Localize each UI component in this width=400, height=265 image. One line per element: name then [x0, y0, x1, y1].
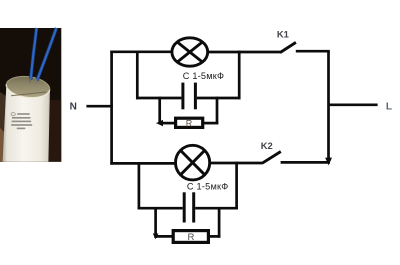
- svg-text:R: R: [188, 232, 195, 243]
- junction arrow at right bus bottom: [325, 158, 332, 166]
- junction arrow at bottom resistor left: [153, 234, 159, 240]
- svg-text:N: N: [70, 102, 77, 113]
- photo of capacitor: [0, 28, 61, 162]
- wire bottom resistor lead left: [155, 235, 175, 238]
- terminals on top: [29, 79, 31, 83]
- wire K2 to right bus: [281, 161, 330, 164]
- reddish lower right: [47, 100, 61, 162]
- blue wire left: [31, 28, 37, 80]
- wire left bus: [110, 51, 113, 165]
- wire bottom outer-left vertical: [138, 162, 141, 209]
- wire bottom branch left: [110, 162, 176, 165]
- wire bottom resistor lead right: [208, 235, 220, 238]
- capacitor C2 plates: [183, 192, 186, 222]
- svg-text:K2: K2: [261, 140, 273, 151]
- wire bottom cap lead right: [195, 207, 238, 210]
- lamp HL1: [172, 38, 208, 66]
- resistor R2 box: [173, 231, 208, 243]
- lamp HL2: [176, 145, 210, 180]
- wire bottom inner-left vertical: [154, 207, 157, 238]
- wire top inner-right vertical: [216, 97, 219, 125]
- switch K1 blade: [280, 42, 296, 52]
- capacitor cylinder body: [3, 88, 50, 162]
- wire top outer-right vertical: [238, 51, 241, 100]
- wire top cap lead left: [136, 97, 181, 100]
- switch K2 blade: [262, 152, 281, 164]
- resistor R1 box: [176, 118, 203, 127]
- node N wire: [86, 105, 113, 108]
- wire top outer-left vertical: [136, 51, 139, 100]
- svg-text:R: R: [186, 118, 193, 128]
- wire right bus: [327, 51, 330, 158]
- wire bottom cap lead left: [138, 207, 183, 210]
- photo background (dark table): [0, 28, 61, 162]
- wire top branch left: [110, 50, 172, 53]
- capacitor top face: [5, 74, 51, 100]
- wire top cap lead right: [197, 97, 241, 100]
- svg-text:С 1-5мкФ: С 1-5мкФ: [187, 182, 229, 192]
- label text on capacitor: [11, 113, 32, 130]
- svg-text:С 1-5мкФ: С 1-5мкФ: [183, 71, 225, 81]
- wire bottom branch right: [210, 162, 263, 165]
- svg-text:L: L: [386, 102, 392, 113]
- node L wire: [329, 103, 378, 106]
- table light bottom-left: [0, 92, 8, 162]
- wire bottom inner-right vertical: [218, 207, 221, 238]
- blue wire right: [37, 28, 57, 81]
- wire top inner-left vertical: [158, 97, 161, 124]
- wire top resistor lead left: [160, 122, 176, 125]
- junction arrow at top resistor left: [156, 120, 163, 126]
- svg-text:K1: K1: [277, 29, 289, 40]
- capacitor C1 plates: [181, 83, 184, 110]
- wire top branch right: [207, 51, 280, 54]
- wire K1 to right bus: [296, 50, 330, 53]
- wire top resistor lead right: [203, 122, 218, 125]
- wire bottom outer-right vertical: [235, 162, 238, 210]
